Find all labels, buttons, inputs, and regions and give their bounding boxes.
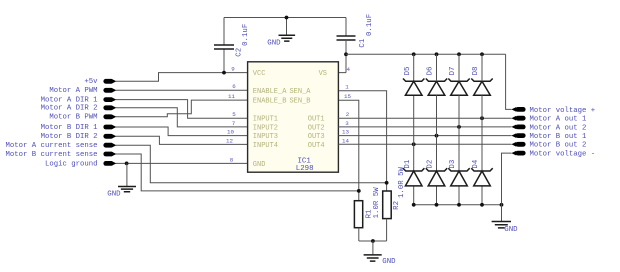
svg-text:OUT4: OUT4 <box>308 142 325 150</box>
svg-text:R2: R2 <box>393 201 401 210</box>
svg-text:12: 12 <box>226 137 233 144</box>
ground left (logic) <box>126 163 128 186</box>
connector pin Motor A out 2 <box>516 125 526 130</box>
wire Motor B DIR 2 to INPUT4 <box>116 136 248 144</box>
svg-text:GND: GND <box>107 190 121 198</box>
svg-text:7: 7 <box>232 120 236 127</box>
wire +5v to VCC <box>116 73 248 82</box>
wire Motor A PWM to ENABLE_A <box>116 89 248 91</box>
node OUT2 col3 <box>457 125 461 129</box>
wire ground join horizontal <box>359 240 387 242</box>
svg-text:0.1uF: 0.1uF <box>366 14 374 36</box>
svg-text:14: 14 <box>342 137 349 144</box>
wire Motor A DIR 1 to INPUT1 <box>116 100 248 119</box>
wire Motor A current sense to SEN_A net <box>116 145 387 183</box>
svg-text:GND: GND <box>253 161 266 169</box>
wire Motor B DIR 1 to INPUT3 <box>116 127 248 136</box>
svg-text:INPUT3: INPUT3 <box>253 133 278 141</box>
wire D8 column <box>481 54 483 205</box>
svg-text:Motor voltage +: Motor voltage + <box>530 107 596 115</box>
connector pin Logic ground <box>103 161 113 166</box>
node rail D3 <box>457 203 461 207</box>
svg-text:C2: C2 <box>236 48 244 57</box>
diode D8 <box>471 79 492 96</box>
svg-text:Logic ground: Logic ground <box>45 160 98 168</box>
svg-text:1.0R 5W: 1.0R 5W <box>398 166 406 198</box>
svg-text:4: 4 <box>346 66 350 73</box>
svg-text:1: 1 <box>345 84 349 91</box>
capacitor C1 <box>337 36 356 40</box>
node OUT4 col1 <box>412 142 416 146</box>
svg-text:3: 3 <box>345 120 349 127</box>
svg-text:VS: VS <box>319 70 327 78</box>
connector pin Motor B DIR 1 <box>103 125 113 130</box>
diode D3 <box>448 168 469 186</box>
svg-text:D2: D2 <box>427 160 435 169</box>
diode D1 <box>403 168 424 186</box>
connector pin Motor voltage + <box>516 107 526 112</box>
ground middle (sense resistors) <box>372 241 374 254</box>
svg-text:6: 6 <box>232 83 236 90</box>
wire D6 column <box>436 54 438 205</box>
resistor R1 <box>354 201 362 228</box>
svg-text:5: 5 <box>232 111 236 118</box>
svg-text:+5v: +5v <box>84 78 98 86</box>
wire C2 bottom lead to VCC node <box>223 49 225 73</box>
wire Motor voltage - to rail <box>502 153 512 205</box>
diode D5 <box>403 54 424 205</box>
wire OUT4 to Motor B out 2 <box>338 143 511 145</box>
svg-text:D3: D3 <box>449 160 457 169</box>
node OUT3 col2 <box>435 134 439 138</box>
svg-text:OUT3: OUT3 <box>308 133 325 141</box>
svg-text:OUT1: OUT1 <box>308 116 325 124</box>
svg-text:GND: GND <box>504 226 518 234</box>
svg-text:D6: D6 <box>427 67 435 76</box>
svg-text:OUT2: OUT2 <box>308 124 325 132</box>
svg-text:D1: D1 <box>404 159 412 168</box>
wire C1 top lead <box>345 18 347 37</box>
connector pin Motor B out 1 <box>516 133 526 138</box>
svg-text:INPUT4: INPUT4 <box>253 142 278 150</box>
connector pin Motor A DIR 1 <box>103 97 113 102</box>
connector pin Motor B DIR 2 <box>103 134 113 139</box>
diode D7 <box>448 79 469 96</box>
node OUT1 col4 <box>480 116 484 120</box>
svg-text:Motor B DIR 1: Motor B DIR 1 <box>41 124 99 132</box>
connector pin Motor A DIR 2 <box>103 105 113 110</box>
connector pin Motor A PWM <box>103 88 113 93</box>
ground top (near C1/C2) <box>286 18 288 35</box>
svg-text:2: 2 <box>346 111 350 118</box>
svg-text:D7: D7 <box>449 67 457 76</box>
svg-text:Motor B current sense: Motor B current sense <box>6 151 98 159</box>
connector pin Motor B current sense <box>103 152 113 157</box>
wire D7 column <box>458 54 460 205</box>
svg-text:ENABLE_A: ENABLE_A <box>253 88 287 96</box>
wire rail to Motor voltage + connector <box>506 54 512 109</box>
wire Motor B current sense to SEN_B net <box>116 154 359 191</box>
svg-text:L298: L298 <box>296 165 314 173</box>
connector pin Motor B PWM <box>103 114 113 119</box>
wire top GND rail C2-C1 <box>224 17 346 19</box>
node rail D7 <box>457 52 461 56</box>
node VCC / C2 <box>222 71 226 75</box>
diode D2 <box>426 168 447 186</box>
svg-text:10: 10 <box>227 129 234 136</box>
node ground join <box>371 239 375 243</box>
svg-text:VCC: VCC <box>253 70 266 78</box>
node rail D5 <box>412 52 416 56</box>
node SEN_B junction <box>357 189 361 193</box>
svg-text:ENABLE_B: ENABLE_B <box>253 98 287 106</box>
wire SEN_A pin to R2 <box>338 91 386 191</box>
svg-text:Motor A current sense: Motor A current sense <box>6 142 98 150</box>
svg-text:D8: D8 <box>472 67 480 76</box>
node VS / diode rail <box>344 52 348 56</box>
IC op U1 body L298 <box>248 62 339 172</box>
diode D6 <box>426 79 447 96</box>
svg-text:INPUT2: INPUT2 <box>253 124 278 132</box>
wire bottom diode rail <box>414 204 502 206</box>
svg-text:C1: C1 <box>359 38 367 47</box>
connector pin Motor B out 2 <box>516 142 526 147</box>
node rail D1 <box>412 203 416 207</box>
ground right (motor supply) <box>501 205 503 221</box>
svg-text:8: 8 <box>230 156 234 163</box>
svg-text:1.0R 5W: 1.0R 5W <box>373 187 381 219</box>
svg-text:INPUT1: INPUT1 <box>253 116 278 124</box>
svg-text:Motor A DIR 2: Motor A DIR 2 <box>41 105 98 113</box>
svg-text:D4: D4 <box>472 159 480 168</box>
wire C2 top lead <box>223 18 225 46</box>
wire Motor A DIR 2 to INPUT2 <box>116 108 248 127</box>
svg-text:0.1uF: 0.1uF <box>242 24 250 46</box>
svg-text:Motor B PWM: Motor B PWM <box>49 114 97 122</box>
svg-text:Motor voltage -: Motor voltage - <box>530 151 596 159</box>
svg-text:SEN_B: SEN_B <box>289 98 310 106</box>
svg-text:15: 15 <box>344 93 351 100</box>
node rail gnd branch <box>500 203 504 207</box>
connector pin +5v <box>103 79 113 84</box>
wire C1 bottom lead to VS pin <box>338 40 346 73</box>
node SEN_A junction <box>385 181 389 185</box>
wire OUT2 to Motor A out 2 <box>338 126 511 128</box>
connector pin Motor A current sense <box>103 143 113 148</box>
svg-text:Motor B out 2: Motor B out 2 <box>530 142 587 150</box>
svg-text:GND: GND <box>382 258 396 266</box>
node rail D8 <box>480 52 484 56</box>
wire motor supply top rail <box>346 53 506 55</box>
node top rail / gnd stem <box>285 16 289 20</box>
diode D4 <box>471 168 492 186</box>
svg-text:Motor A PWM: Motor A PWM <box>49 87 97 95</box>
svg-text:GND: GND <box>267 39 281 47</box>
wire OUT1 to Motor A out 1 <box>338 117 511 119</box>
wire Motor B PWM to ENABLE_B <box>116 100 248 117</box>
resistor R2 <box>383 191 392 219</box>
node logic ground branch <box>125 162 129 166</box>
wire SEN_B pin to R1 <box>338 100 358 201</box>
connector pin Motor A out 1 <box>516 116 526 121</box>
svg-text:Motor A out 2: Motor A out 2 <box>530 124 587 132</box>
wire Logic ground to GND pin <box>116 162 248 164</box>
svg-text:Motor B DIR 2: Motor B DIR 2 <box>41 133 98 141</box>
node rail D4 <box>480 203 484 207</box>
svg-text:D5: D5 <box>404 67 412 76</box>
svg-text:Motor B out 1: Motor B out 1 <box>530 133 588 141</box>
wire R1 bottom to ground join <box>358 228 360 241</box>
svg-text:11: 11 <box>228 93 235 100</box>
svg-text:13: 13 <box>342 129 349 136</box>
capacitor C2 <box>214 45 234 49</box>
wire R2 bottom to ground join <box>386 219 388 241</box>
svg-text:9: 9 <box>231 65 235 72</box>
svg-text:SEN_A: SEN_A <box>289 88 311 96</box>
node rail D2 <box>435 203 439 207</box>
svg-text:Motor A DIR 1: Motor A DIR 1 <box>41 97 99 105</box>
node rail D6 <box>435 52 439 56</box>
wire OUT3 to Motor B out 1 <box>338 135 511 137</box>
connector pin Motor voltage - <box>516 151 526 156</box>
svg-text:Motor A out 1: Motor A out 1 <box>530 116 588 124</box>
